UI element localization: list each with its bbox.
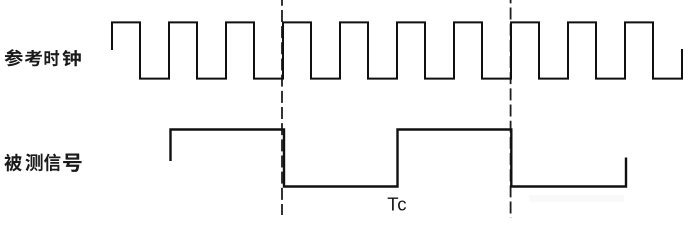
cursor dashed line T1 (first measured edge) [281,0,283,215]
svg-text:Tc: Tc [387,194,407,215]
faint watermark remnant bottom-right [529,195,624,202]
label 被测信号 (signal under test) [4,153,81,171]
signal under test waveform [171,130,627,187]
cursor dashed line T2 (second measured edge) [510,0,512,218]
reference clock waveform (square wave) [112,22,682,78]
label 参考时钟 (reference clock) [5,49,81,66]
